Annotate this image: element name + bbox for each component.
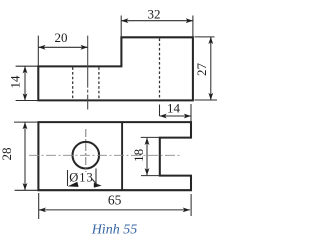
dia 13 arrow left bbox=[68, 182, 79, 187]
svg-text:14: 14 bbox=[167, 100, 181, 115]
dim 14 left ext lines bbox=[16, 65, 39, 67]
dia 13 leader bbox=[92, 179, 97, 185]
dim 27 arrows bbox=[208, 37, 213, 44]
top view outline bbox=[38, 122, 191, 190]
dim 18 ext lines bbox=[141, 136, 160, 138]
hidden line hole right (front view) bbox=[98, 67, 100, 99]
dim 65 arrows bbox=[39, 208, 46, 213]
hidden line hole left (front view) bbox=[72, 67, 74, 99]
dim 28 line bbox=[24, 122, 26, 190]
dim 18 line bbox=[146, 138, 148, 176]
hole circle bbox=[73, 142, 100, 169]
dim 32 line bbox=[121, 20, 193, 22]
svg-text:18: 18 bbox=[131, 149, 146, 162]
dia 13 ext left bbox=[67, 170, 69, 186]
hidden line notch (front view) bbox=[159, 39, 161, 100]
svg-text:27: 27 bbox=[194, 63, 209, 77]
dim 20 arrows bbox=[38, 45, 45, 50]
dim 14 notch ext lines bbox=[159, 105, 161, 117]
front view outline bbox=[38, 37, 193, 100]
dia 13 arrow right bbox=[94, 183, 102, 188]
step edge line (top view) bbox=[121, 122, 123, 190]
dim 32 ext lines bbox=[120, 16, 122, 38]
dim 65 ext lines bbox=[38, 193, 40, 219]
dim 14 notch line bbox=[160, 115, 192, 117]
dim 32 arrows bbox=[121, 18, 128, 23]
dim 14 notch arrows bbox=[160, 114, 167, 119]
dia 13 ext right bbox=[95, 169, 97, 187]
dim 14 left line bbox=[24, 66, 26, 100]
centerline hole axis (front view) bbox=[87, 36, 89, 110]
dim 65 line bbox=[39, 209, 190, 211]
centerline vertical hole bbox=[85, 129, 87, 172]
dim 27 line bbox=[210, 37, 212, 100]
svg-text:Hình 55: Hình 55 bbox=[91, 222, 138, 237]
dim 18 arrows bbox=[145, 138, 150, 145]
svg-text:32: 32 bbox=[148, 6, 161, 21]
dim 27 ext lines bbox=[195, 36, 215, 38]
dim 14 left arrows bbox=[23, 66, 28, 73]
svg-text:28: 28 bbox=[0, 148, 14, 161]
svg-text:65: 65 bbox=[108, 193, 122, 208]
dim 28 ext lines bbox=[14, 121, 38, 123]
svg-text:14: 14 bbox=[7, 75, 22, 89]
dim 20 ext left bbox=[37, 36, 39, 67]
dim 20 line bbox=[38, 46, 87, 48]
svg-text:Ø13: Ø13 bbox=[69, 171, 94, 185]
centerline horizontal (top view) bbox=[29, 154, 180, 156]
svg-text:20: 20 bbox=[55, 30, 68, 45]
dim 28 arrows bbox=[23, 122, 28, 129]
